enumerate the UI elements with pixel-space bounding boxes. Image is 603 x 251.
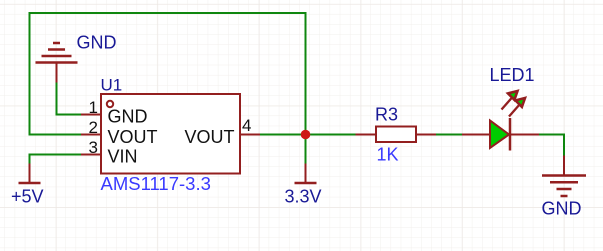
svg-text:2: 2 [89, 118, 98, 137]
svg-text:3: 3 [89, 138, 98, 157]
svg-text:AMS1117-3.3: AMS1117-3.3 [101, 173, 211, 194]
junction dot (3.3V net) [301, 130, 311, 140]
svg-text:1K: 1K [377, 145, 399, 165]
svg-text:GND: GND [108, 107, 148, 127]
resistor R3 leads [356, 134, 377, 136]
ground symbol (top-left, inverted) [36, 43, 78, 83]
svg-text:VOUT: VOUT [108, 127, 158, 147]
LED arrow 2 [509, 98, 525, 117]
svg-text:GND: GND [542, 199, 582, 219]
wire pin1 to GND symbol [57, 83, 82, 115]
pin 2 stub [81, 134, 101, 136]
pin-1 marker circle [107, 101, 113, 107]
wire resistor to LED [436, 134, 462, 136]
wire LED to right GND [539, 135, 564, 156]
wire pin3 to +5V flag [30, 155, 82, 164]
pin 1 stub [81, 114, 101, 116]
ground symbol (right) [542, 156, 586, 197]
svg-text:3.3V: 3.3V [285, 187, 322, 207]
power flag +5V [19, 164, 41, 184]
svg-text:VOUT: VOUT [184, 127, 234, 147]
wire junction drop to 3.3V flag [305, 135, 307, 164]
pin 4 stub [240, 134, 260, 136]
LED triangle [490, 121, 509, 149]
svg-text:1: 1 [89, 98, 98, 117]
svg-text:VIN: VIN [108, 147, 138, 167]
svg-text:LED1: LED1 [490, 65, 535, 85]
power flag 3.3V [295, 164, 317, 184]
svg-text:R3: R3 [375, 105, 398, 125]
LED arrow 1 [502, 91, 518, 110]
wire VOUT pin2 loop (pin2 to 3.3V net, around the top) [30, 13, 306, 135]
svg-text:4: 4 [242, 116, 251, 135]
svg-text:+5V: +5V [11, 187, 44, 207]
LED cathode bar [509, 118, 512, 151]
IC U1 (AMS1117-3.3) body [101, 94, 240, 174]
LED LED1 leads [462, 134, 490, 136]
svg-text:GND: GND [77, 33, 117, 53]
pin 3 stub [81, 154, 101, 156]
svg-text:U1: U1 [101, 76, 123, 95]
wire pin4 to resistor (3.3V net horizontal) [260, 134, 356, 136]
resistor R3 body [376, 127, 416, 143]
